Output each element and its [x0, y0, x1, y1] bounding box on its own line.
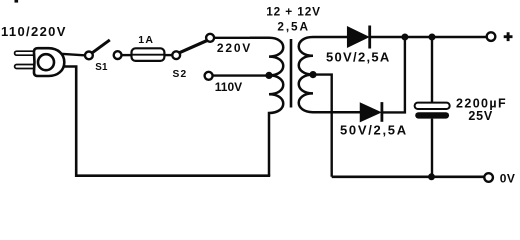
node: fuse left terminal — [114, 51, 122, 59]
label + — [504, 32, 513, 41]
svg-text:50V/2,5A: 50V/2,5A — [326, 50, 391, 65]
wire 0V rail — [332, 176, 485, 179]
transformer T1 core — [290, 39, 293, 108]
capacitor C1 — [415, 39, 450, 177]
fuse F1 — [132, 48, 165, 61]
wire mains bottom rail — [63, 67, 270, 176]
junction D2 riser on plus rail — [401, 34, 408, 41]
svg-text:12 + 12V: 12 + 12V — [266, 5, 321, 19]
wire D2 output riser — [383, 37, 405, 112]
transformer center tap wire — [313, 75, 332, 177]
node 110V terminal — [205, 72, 213, 80]
wire D1 to plus rail — [371, 36, 486, 38]
svg-text:50V/2,5A: 50V/2,5A — [340, 123, 408, 138]
svg-text:25V: 25V — [468, 109, 493, 123]
transformer T1 secondary winding — [299, 37, 361, 112]
junction capacitor bottom on 0V rail — [428, 173, 435, 180]
svg-text:110/220V: 110/220V — [1, 24, 67, 39]
svg-text:1A: 1A — [138, 34, 154, 46]
svg-text:220V: 220V — [217, 41, 252, 55]
svg-text:110V: 110V — [215, 80, 242, 94]
terminal 0V — [484, 173, 493, 182]
wire plug to S1 — [61, 54, 84, 56]
terminal plus — [487, 32, 496, 41]
diode D2 — [361, 102, 382, 122]
svg-text:0V: 0V — [500, 171, 516, 185]
wire fuse to S2 — [164, 54, 172, 56]
wire to fuse — [121, 54, 131, 56]
transformer T1 primary winding — [250, 38, 283, 176]
stray mark top-left — [15, 0, 19, 3]
junction center tap — [309, 71, 316, 78]
junction capacitor top on plus rail — [429, 34, 436, 41]
diode D1 — [348, 26, 370, 49]
svg-text:S2: S2 — [173, 69, 188, 80]
wire 220V to primary top — [214, 37, 250, 39]
plug P1 — [15, 48, 65, 76]
switch S2 — [172, 41, 207, 60]
wire 110V tap — [212, 74, 269, 76]
svg-text:2,5A: 2,5A — [277, 19, 310, 33]
svg-text:S1: S1 — [95, 62, 108, 73]
node 220V terminal — [206, 34, 214, 42]
switch S1 — [85, 40, 110, 59]
junction primary 110V tap — [265, 72, 272, 79]
